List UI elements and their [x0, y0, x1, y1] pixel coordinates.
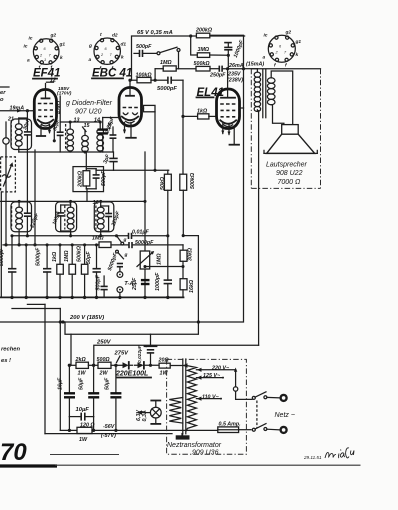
vertical 26.2: [25, 245, 27, 298]
tube EBC41 envelope: [103, 88, 142, 138]
resistor 1k grid stopper: [183, 109, 217, 120]
label Netztransformator 909 U36: [167, 442, 222, 457]
switch Tg lower: [116, 250, 128, 259]
IF tank lower-left : coil + 220pF: [12, 201, 41, 245]
svg-text:26mA: 26mA: [228, 63, 244, 69]
dioden-filter coil 15: [82, 123, 91, 152]
resistor 1M vertical: [64, 243, 76, 297]
tap 110V~: [196, 395, 222, 401]
capacitor 5000pF mid: [129, 240, 154, 248]
svg-text:908 U22: 908 U22: [276, 170, 303, 177]
svg-text:es !: es !: [1, 358, 11, 364]
capacitor 3pF: [103, 152, 118, 170]
resistor 30kOhm: [180, 247, 193, 266]
label EBC41: [92, 68, 132, 80]
wires tank top/bottom (filter): [60, 121, 100, 123]
svg-text:500pF: 500pF: [136, 44, 152, 50]
capacitor 0.01uF: [129, 229, 150, 239]
bus Y2: [12, 235, 128, 237]
svg-text:250pF: 250pF: [209, 73, 226, 79]
wire 250V rail touch: [145, 346, 147, 348]
svg-text:500kΩ: 500kΩ: [194, 61, 211, 67]
label 275V with pointer: [114, 351, 130, 363]
svg-text:rechen: rechen: [1, 347, 20, 353]
resistor 500k vertical: [77, 243, 88, 297]
node dots left: [26, 234, 29, 237]
detector circle: [3, 122, 9, 245]
svg-text:0,01µF: 0,01µF: [132, 229, 149, 235]
svg-text:er: er: [0, 90, 6, 96]
svg-text:7000 Ω: 7000 Ω: [278, 179, 302, 186]
svg-text:275V: 275V: [114, 351, 130, 357]
svg-text:0,022µF: 0,022µF: [137, 344, 143, 363]
tube EF41 envelope: [34, 84, 56, 143]
svg-text:ic: ic: [29, 36, 33, 42]
voltage selector plug: [233, 372, 252, 400]
svg-text:k: k: [296, 52, 299, 58]
vertical from Y1 to pot: [144, 152, 146, 251]
resistor 16kOhm: [180, 267, 195, 298]
resistor 20 Ohm: [158, 358, 188, 377]
IF tank 16: [93, 200, 122, 236]
svg-text:29.11.51: 29.11.51: [303, 455, 322, 460]
svg-text:g: g: [123, 238, 127, 243]
resistor 500k vertical: [180, 172, 196, 235]
svg-text:500pF: 500pF: [96, 274, 102, 290]
svg-text:g1: g1: [59, 42, 66, 48]
mains transformer HV winding zigzag: [187, 366, 197, 431]
speaker dash-dot box: [251, 69, 320, 189]
svg-text:220E100L: 220E100L: [115, 371, 148, 378]
svg-text:d2: d2: [112, 33, 118, 39]
heater bus pair: [12, 304, 172, 433]
cap 5000pF #2: [36, 243, 52, 297]
mains transformer heater winding zigzag: [169, 398, 183, 424]
band switch dashed box with arrow: [1, 157, 16, 192]
resistor 1MOhm (tone): [155, 60, 196, 80]
bottom rule thin: [55, 464, 361, 466]
capacitor 1000pF: [224, 39, 245, 59]
resistor 500kOhm (B+ feed): [194, 61, 219, 71]
svg-text:5000pF: 5000pF: [36, 247, 42, 266]
wire B+ to primary return: [65, 236, 198, 335]
svg-text:g2: g2: [50, 33, 57, 39]
capacitor 0.022uF: [137, 334, 157, 367]
svg-text:3MΩ: 3MΩ: [198, 47, 210, 53]
label EF41: [33, 68, 61, 80]
svg-text:g1: g1: [295, 39, 302, 45]
svg-text:g: g: [124, 253, 128, 258]
resistor 200k leads: [210, 34, 244, 36]
capacitor 25uF (EBC cathode): [98, 115, 117, 152]
wire 19mA grid feed: [0, 106, 34, 113]
jacks T-A: [107, 252, 134, 298]
svg-text:50µF: 50µF: [79, 377, 85, 390]
capacitor 5000pF coupling: [155, 77, 183, 92]
left vertical wire: [0, 192, 2, 297]
svg-text:907 U20: 907 U20: [75, 109, 102, 116]
svg-text:2kΩ: 2kΩ: [75, 357, 87, 363]
wire EBC41 anode to coupling: [129, 80, 131, 87]
svg-text:30kΩ: 30kΩ: [188, 247, 194, 261]
capacitor 500pF low: [96, 274, 108, 297]
svg-text:10µF: 10µF: [76, 407, 90, 413]
resistor 120 Ohm: [60, 422, 218, 443]
filter cap 50uF b: [105, 365, 122, 432]
left column cap 5000pF: [0, 234, 16, 297]
svg-text:ic: ic: [264, 33, 268, 39]
svg-text:1MΩ: 1MΩ: [64, 250, 70, 262]
svg-text:220 V~: 220 V~: [211, 366, 230, 372]
svg-text:1kΩ: 1kΩ: [52, 251, 58, 262]
label Lautsprecher 908 U22 7000 Ohm: [266, 162, 308, 187]
wire coupling down to grid node: [182, 80, 184, 174]
svg-text:(170V): (170V): [57, 91, 72, 97]
mains switch pole 2: [252, 424, 279, 432]
tube socket diagram EL41: [263, 30, 302, 69]
wire cap junction down to 26mA node: [227, 55, 229, 69]
wire to 3M: [191, 36, 198, 55]
svg-text:a: a: [27, 59, 30, 64]
loudspeaker: [264, 125, 317, 154]
wire 200V rail: [0, 36, 244, 322]
svg-text:5000pF: 5000pF: [135, 240, 154, 246]
svg-text:500Ω: 500Ω: [97, 357, 111, 363]
filter cap 50uF a: [79, 365, 100, 416]
capacitor 1000pF cathode: [155, 236, 172, 298]
switch Tg upper: [117, 236, 127, 245]
svg-text:110 V~: 110 V~: [202, 395, 220, 401]
bottom rule thick: [0, 464, 57, 467]
tube socket diagram EBC41: [88, 32, 126, 72]
svg-text:Neztransformator: Neztransformator: [167, 442, 222, 449]
svg-text:200kΩ: 200kΩ: [195, 28, 213, 34]
short line under psu: [50, 454, 119, 456]
mains terminal 1: [281, 395, 287, 401]
dioden-filter tank 14: [94, 118, 116, 153]
RC box 200k/500pF: [73, 152, 107, 201]
IF can 21 : trimmer cap 30pF: [22, 109, 32, 213]
svg-text:200kΩ: 200kΩ: [78, 170, 84, 188]
wire EL41 screen to B+: [240, 107, 244, 109]
svg-text:19mA: 19mA: [10, 106, 25, 112]
svg-text:1MΩ: 1MΩ: [157, 253, 163, 265]
resistor 200kOhm: [196, 33, 209, 38]
fuse 0.5Amp: [218, 421, 251, 432]
svg-text:(-57V): (-57V): [101, 433, 116, 439]
mains transformer dash-dot box: [167, 359, 247, 454]
potentiometer 1M: [137, 251, 163, 297]
wire 65V rail: [132, 36, 245, 80]
svg-text:500pF: 500pF: [101, 170, 107, 186]
svg-text:1000pF: 1000pF: [155, 272, 161, 291]
resistor 1k vertical: [52, 243, 63, 297]
svg-text:(238V): (238V): [227, 78, 243, 84]
svg-text:200 V (185V): 200 V (185V): [69, 315, 104, 321]
svg-text:ic: ic: [24, 44, 28, 50]
svg-text:d1: d1: [121, 42, 127, 48]
svg-text:1MΩ: 1MΩ: [92, 236, 104, 242]
wire tank21 top/bottom: [19, 117, 28, 119]
wire pot to 30k/16k node: [144, 266, 183, 268]
svg-text:Lautsprecher: Lautsprecher: [266, 162, 308, 169]
IF tank B (9): [52, 200, 74, 236]
svg-text:909 U36: 909 U36: [192, 450, 219, 457]
svg-text:1W: 1W: [79, 437, 88, 443]
IF can 21 : coil: [7, 117, 22, 153]
svg-text:(15mA): (15mA): [246, 62, 264, 68]
svg-text:50µF: 50µF: [105, 377, 111, 390]
svg-text:50pF: 50pF: [86, 251, 92, 264]
node 26mA: [242, 67, 245, 70]
node on 65V rail: [189, 34, 192, 37]
svg-text:k: k: [60, 55, 63, 61]
svg-text:5000pF: 5000pF: [0, 247, 5, 266]
PSU main chain y365: [68, 357, 123, 377]
svg-text:50kΩ: 50kΩ: [160, 176, 166, 190]
wire 250V rail: [94, 345, 259, 365]
bus Y3 with 1M series resistor: [3, 236, 183, 251]
svg-text:1: 1: [44, 58, 46, 62]
label EL41: [197, 87, 225, 99]
output transformer: [254, 69, 293, 125]
svg-text:g2: g2: [285, 30, 292, 36]
capacitor 250pF series: [209, 66, 244, 79]
svg-text:1W: 1W: [160, 371, 169, 377]
svg-text:k: k: [121, 55, 124, 61]
wire EBC41 right to grid resistors: [142, 108, 144, 110]
dioden-filter tank 13: [52, 118, 79, 153]
svg-text:a: a: [89, 58, 92, 63]
mains switch pole 1: [252, 392, 279, 400]
svg-text:g: g: [88, 44, 92, 49]
svg-text:5000pF: 5000pF: [157, 86, 177, 92]
resistor 50k vertical: [160, 170, 171, 236]
svg-text:-56V: -56V: [103, 424, 115, 430]
filter cap 16uF: [58, 365, 76, 416]
bus Y1: [0, 200, 145, 202]
capacitor 500pF top left: [134, 44, 157, 57]
mains terminal 2: [281, 427, 287, 433]
diode 220E100L (two): [115, 362, 159, 378]
tube EL41 envelope: [217, 67, 240, 145]
svg-text:25µF: 25µF: [132, 277, 138, 291]
capacitor 50pF: [86, 243, 101, 297]
capacitor 25uF cathode: [132, 277, 149, 291]
tap 220V~: [196, 366, 237, 372]
svg-text:42kΩ: 42kΩ: [57, 100, 63, 115]
svg-text:o: o: [0, 97, 4, 103]
signature: [325, 448, 354, 458]
switch gang dashes: [256, 401, 258, 428]
wire B+ to output transformer primary: [244, 68, 258, 70]
tap 125V~: [196, 373, 224, 380]
svg-text:500kΩ: 500kΩ: [77, 245, 83, 262]
svg-text:15: 15: [84, 123, 91, 129]
vertical wire x34.4: [34, 150, 36, 245]
svg-text:1kΩ: 1kΩ: [197, 109, 208, 115]
switch tone: [157, 47, 180, 69]
mains transformer core: [176, 359, 190, 440]
svg-text:65 V 0,35 mA: 65 V 0,35 mA: [137, 30, 173, 36]
tube socket diagram EF41: [24, 33, 66, 72]
svg-text:16kΩ: 16kΩ: [189, 279, 195, 293]
svg-text:70: 70: [0, 439, 27, 466]
pilot lamp 6.3V 0.3A: [136, 401, 161, 424]
capacitor 10uF: [69, 407, 93, 430]
svg-text:g Dioden-Filter: g Dioden-Filter: [66, 100, 113, 107]
svg-text:2W: 2W: [99, 371, 109, 377]
svg-text:500kΩ: 500kΩ: [190, 172, 196, 189]
svg-text:1W: 1W: [78, 371, 87, 377]
IF can outlines: [11, 119, 32, 150]
svg-text:0,3A: 0,3A: [142, 410, 148, 421]
svg-text:Netz ~: Netz ~: [275, 412, 295, 419]
resistor diode load (unlabeled): [144, 105, 156, 111]
ground bus Y4: [0, 296, 184, 298]
resistor 100kOhm (grid): [128, 72, 156, 83]
cut label at left edge: [0, 86, 9, 88]
svg-text:16µF: 16µF: [58, 377, 64, 390]
wire y167.7 grid bus: [96, 169, 169, 171]
svg-text:a: a: [263, 56, 266, 61]
svg-text:20Ω: 20Ω: [158, 358, 170, 364]
resistor 3MOhm: [197, 47, 228, 57]
